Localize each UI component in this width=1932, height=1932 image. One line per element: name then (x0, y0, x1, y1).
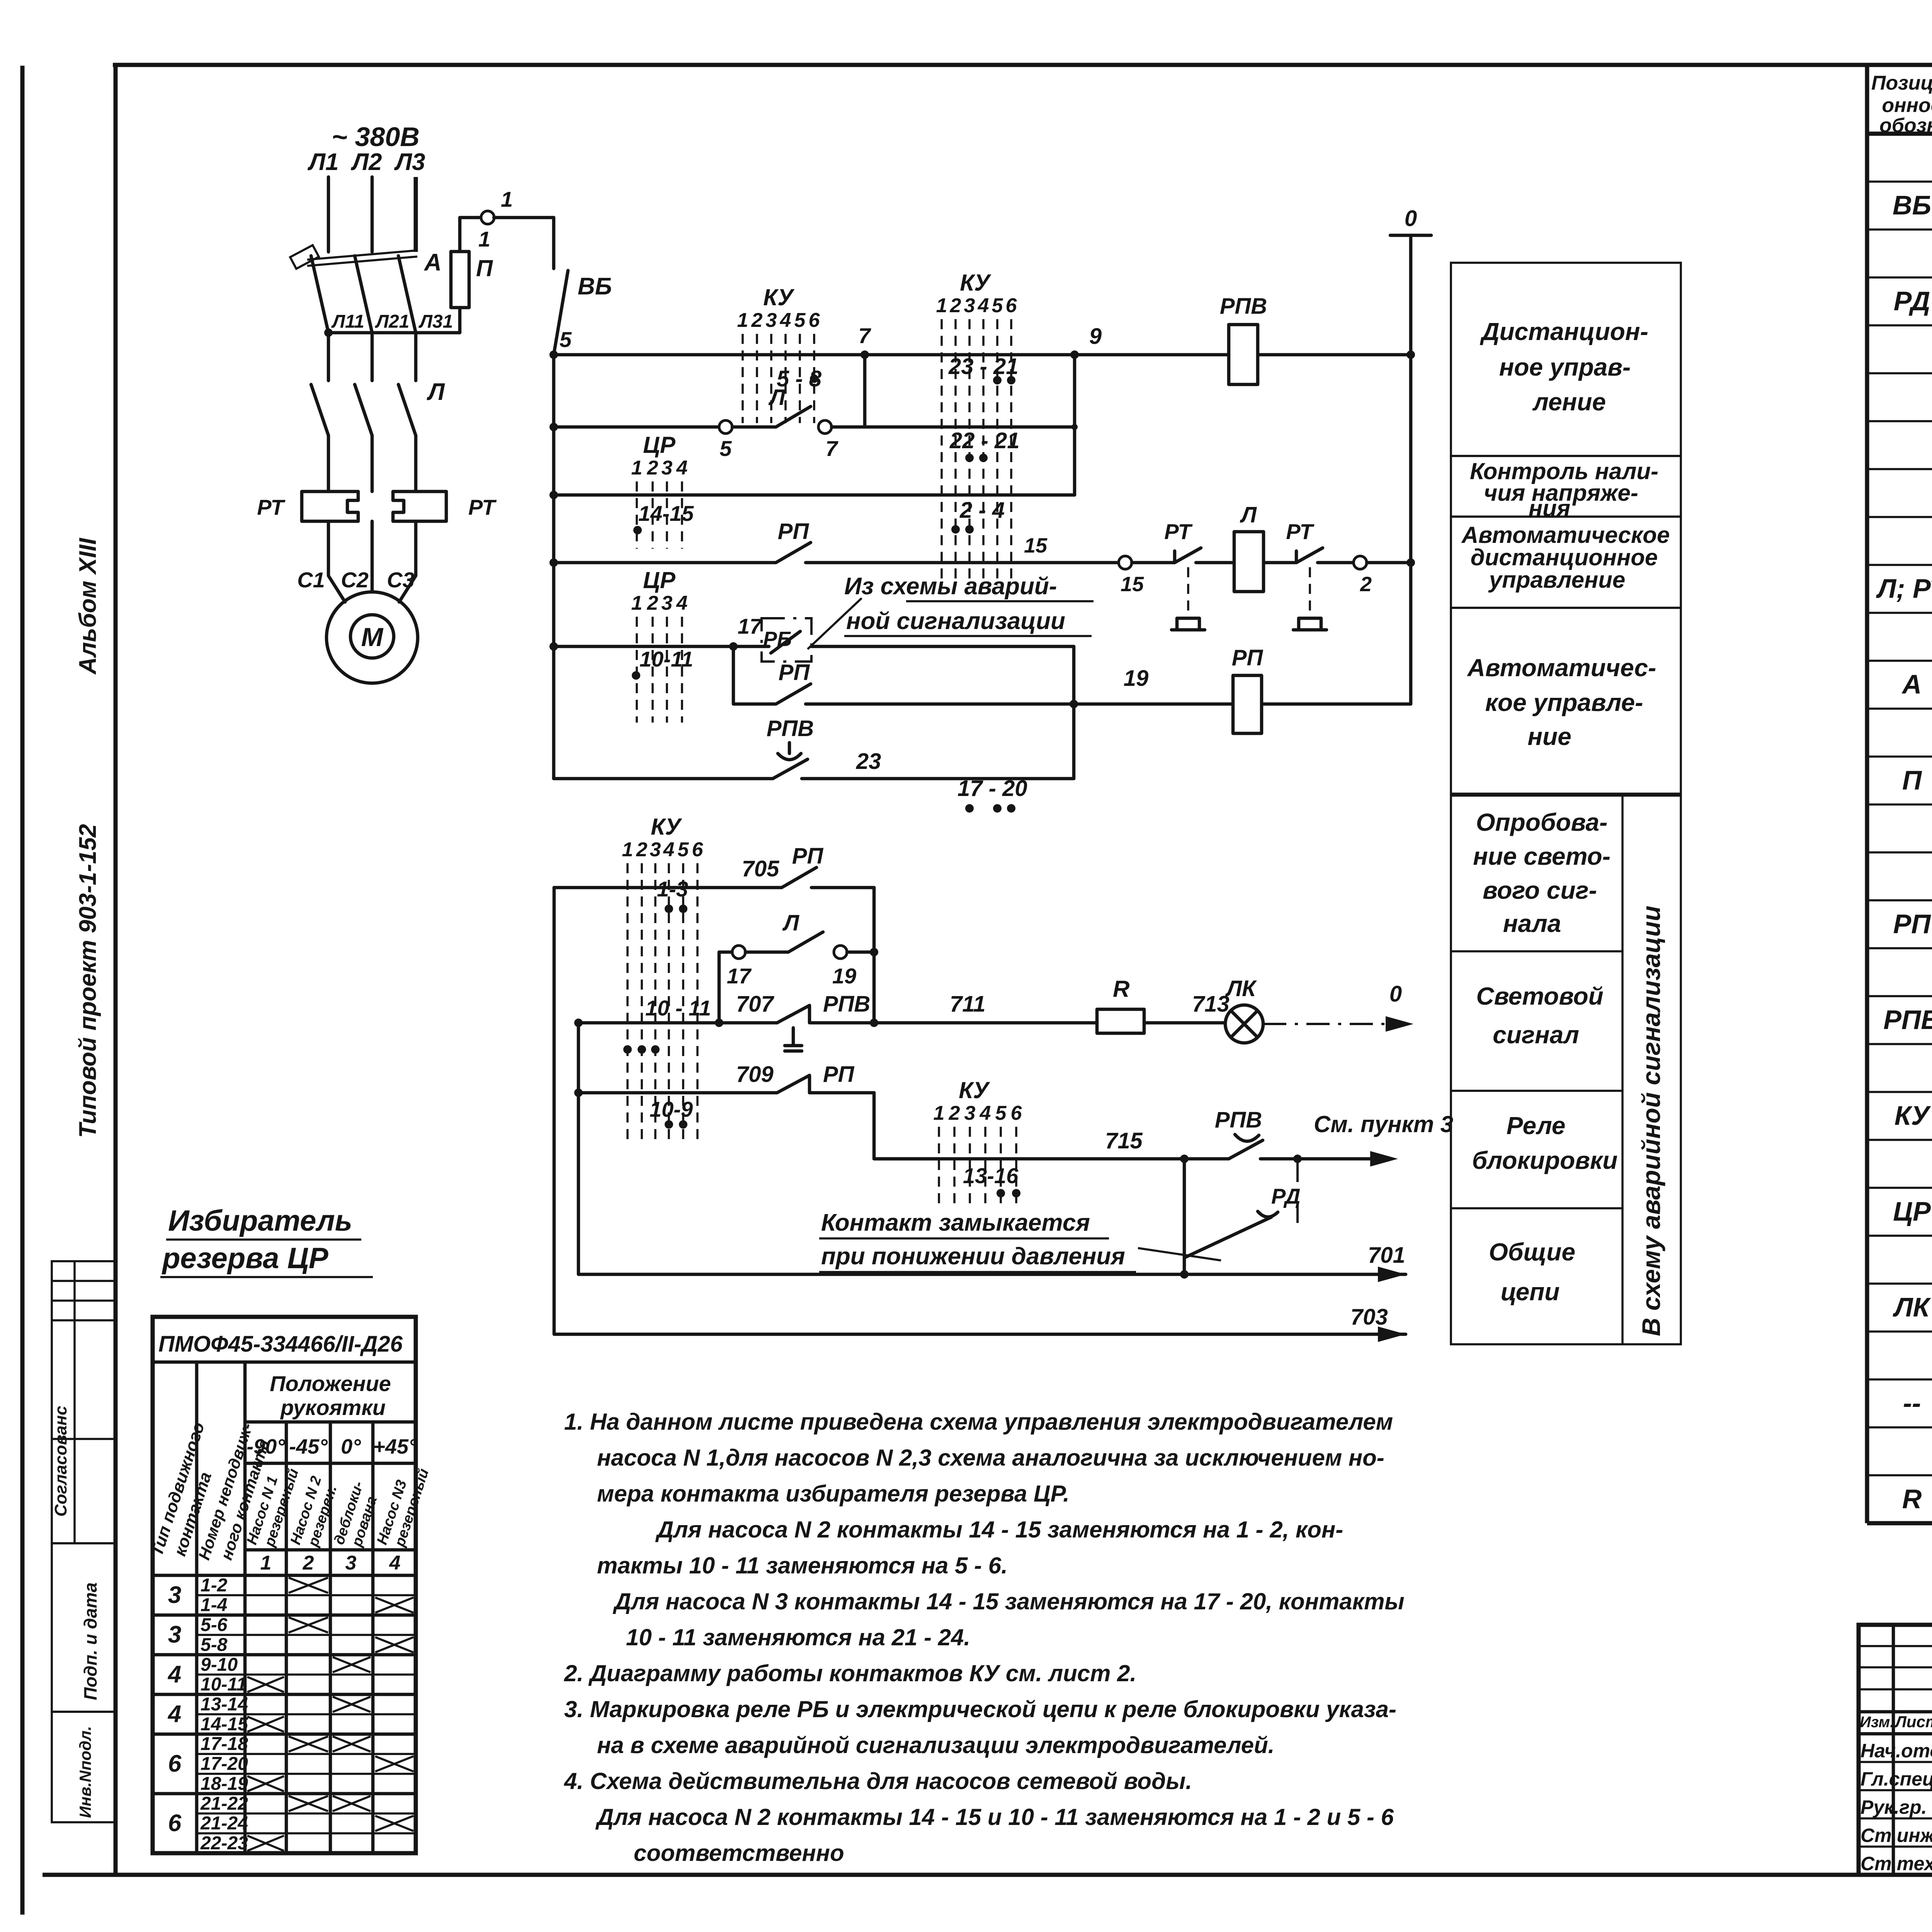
wire row709 to row715 (874, 1093, 939, 1159)
terminal 2 (1354, 556, 1367, 569)
svg-text:Л21: Л21 (375, 311, 409, 332)
margin box Инв.N подл. (52, 1712, 116, 1822)
wire 2 to bus0 (1367, 561, 1411, 565)
contact КУ 5-8 dot (810, 374, 818, 383)
wire row 23 left (552, 777, 556, 779)
wire fuse to node 1 (460, 218, 481, 252)
arrow wire 703 (1378, 1327, 1406, 1342)
svg-text:705: 705 (742, 856, 780, 881)
svg-text:нала: нала (1503, 910, 1561, 937)
svg-text:ЦР: ЦР (643, 432, 676, 458)
contact ЦР 14-15 dot (633, 526, 642, 534)
svg-text:6: 6 (809, 309, 820, 332)
svg-text:П: П (1902, 765, 1922, 795)
svg-text:1-3: 1-3 (657, 877, 688, 901)
wire Л coil to РТ right (1264, 561, 1296, 565)
svg-text:Альбом XIII: Альбом XIII (75, 537, 101, 675)
svg-text:А: А (1901, 669, 1922, 699)
svg-text:ление: ление (1532, 388, 1606, 416)
svg-text:Типовой проект 903-1-152: Типовой проект 903-1-152 (75, 824, 101, 1138)
svg-text:1: 1 (936, 294, 947, 317)
function box divider Световой сигнал (1451, 1090, 1622, 1092)
svg-text:Л1: Л1 (307, 149, 338, 175)
wire РД branch left (1183, 1159, 1186, 1274)
frame left (114, 65, 118, 1875)
arrow lamp row (1386, 1016, 1413, 1032)
terminal 19 (834, 946, 847, 959)
node V2 row Л (870, 948, 878, 956)
svg-text:ПМОФ45-334466/II-Д26: ПМОФ45-334466/II-Д26 (158, 1332, 403, 1357)
svg-text:Реле: Реле (1507, 1112, 1566, 1139)
wire node7 tie (863, 355, 867, 427)
svg-text:рукоятки: рукоятки (280, 1395, 386, 1420)
svg-text:4: 4 (389, 1552, 401, 1574)
svg-text:19: 19 (832, 964, 856, 988)
relay РБ box (762, 618, 811, 662)
svg-text:711: 711 (950, 992, 985, 1017)
wire row 705 (554, 886, 782, 889)
svg-text:соответственно: соответственно (634, 1840, 844, 1866)
svg-text:резерва ЦР: резерва ЦР (162, 1242, 328, 1275)
svg-text:7: 7 (825, 436, 838, 461)
coil РП (1233, 675, 1262, 733)
wire row Л aux left (554, 425, 719, 429)
wire phase Л1 mid (327, 333, 330, 381)
breaker A blade 2 (355, 256, 372, 333)
svg-text:1-4: 1-4 (201, 1595, 227, 1616)
svg-text:5: 5 (678, 838, 689, 861)
svg-text:3: 3 (662, 457, 673, 479)
svg-text:дистанционное: дистанционное (1471, 544, 1658, 570)
svg-text:Л; РТ: Л; РТ (1876, 573, 1932, 604)
svg-text:5: 5 (992, 294, 1003, 317)
svg-text:1: 1 (737, 309, 748, 332)
wire phase Л3 mid (414, 333, 418, 381)
arrow wire 701 (1378, 1267, 1406, 1282)
node row15 bus (549, 558, 558, 567)
svg-text:блокировки: блокировки (1472, 1146, 1618, 1174)
node row15 bus0 (1406, 558, 1415, 567)
contact КУ 23-21 dots (993, 376, 1002, 384)
svg-text:РПВ: РПВ (823, 992, 870, 1017)
svg-text:онное: онное (1882, 94, 1932, 117)
svg-text:23: 23 (856, 749, 881, 774)
wire row 23 right (802, 777, 1074, 781)
svg-text:В схему аварийной сигнализаци: В схему аварийной сигнализации (1637, 906, 1665, 1336)
thermal РТ right (393, 492, 446, 521)
contactor Л blade 1 (311, 384, 328, 435)
svg-text:4: 4 (663, 838, 675, 861)
selector КУ group B position lines (940, 319, 943, 585)
wire tie 17-23 (1072, 646, 1076, 779)
selector table outer (153, 1317, 416, 1853)
contact ЦР 10-11 lower dots (623, 1045, 632, 1054)
function box strip divider (1621, 796, 1624, 1344)
svg-text:2: 2 (303, 1552, 314, 1574)
breaker A blade 1 (311, 256, 328, 333)
svg-text:РП: РП (1893, 909, 1931, 939)
svg-text:2: 2 (751, 309, 763, 332)
svg-text:Изм.: Изм. (1860, 1714, 1894, 1731)
contact Л aux lower (745, 951, 788, 954)
svg-text:Гл.спец.: Гл.спец. (1861, 1768, 1932, 1790)
title block name rows (1859, 1761, 1932, 1763)
coil РПВ (1229, 325, 1258, 384)
terminal 7 (818, 420, 832, 434)
svg-text:13-16: 13-16 (963, 1163, 1019, 1188)
svg-text:2: 2 (950, 294, 961, 317)
wire fuse tap (328, 308, 460, 333)
node 1 terminal (481, 211, 494, 224)
svg-text:4: 4 (167, 1701, 181, 1728)
contact КУ 2-4 dots (951, 525, 960, 534)
svg-text:П: П (476, 255, 493, 281)
svg-text:Л: Л (427, 379, 445, 405)
svg-text:Положение: Положение (270, 1371, 391, 1396)
breaker A linkage (307, 250, 417, 260)
wire РП coil to bus0 (1262, 702, 1411, 706)
svg-text:1: 1 (631, 457, 643, 479)
svg-text:С3: С3 (387, 568, 415, 592)
switch ВБ stem (552, 218, 556, 269)
svg-text:0: 0 (1389, 981, 1402, 1007)
node fuse tap (324, 328, 333, 337)
svg-text:РПВ: РПВ (1215, 1107, 1262, 1133)
svg-text:РП: РП (779, 660, 810, 685)
svg-text:3: 3 (345, 1552, 357, 1574)
svg-text:ЛК: ЛК (1225, 976, 1257, 1001)
svg-text:R: R (1113, 976, 1129, 1002)
svg-text:2. Диаграмму работы контакто: 2. Диаграмму работы контактов КУ см. лис… (564, 1660, 1136, 1686)
svg-text:18-19: 18-19 (201, 1774, 248, 1794)
selector КУ group D position lines (938, 1127, 940, 1206)
svg-text:Л31: Л31 (418, 311, 453, 332)
svg-text:РП: РП (823, 1062, 855, 1087)
svg-text:Общие: Общие (1489, 1238, 1575, 1266)
svg-text:10-11: 10-11 (201, 1674, 247, 1695)
svg-text:2: 2 (647, 592, 658, 614)
svg-text:Позици-: Позици- (1871, 72, 1932, 94)
svg-text:709: 709 (736, 1062, 774, 1087)
svg-text:17-18: 17-18 (201, 1734, 248, 1754)
svg-text:1: 1 (501, 187, 513, 211)
contact РТ right NC (1295, 551, 1298, 563)
svg-text:РД: РД (1271, 1184, 1301, 1208)
selector ЦР group B position lines (636, 617, 638, 723)
svg-text:5: 5 (560, 327, 572, 352)
svg-text:ВБ: ВБ (578, 273, 612, 300)
function box lower group (1451, 796, 1681, 1344)
selector КУ group A position lines (742, 334, 744, 423)
selector table double X row 17-18 (289, 1736, 328, 1752)
svg-text:Л2: Л2 (350, 149, 382, 175)
svg-text:2: 2 (647, 457, 658, 479)
selector table title underline (153, 1361, 416, 1364)
svg-text:+45°: +45° (373, 1435, 417, 1458)
margin stamp boxes (52, 1261, 116, 1543)
svg-text:Ст.инж.: Ст.инж. (1861, 1825, 1932, 1846)
contact РП row709 NC (808, 1077, 811, 1093)
selector table double X row 21-22 (289, 1796, 328, 1811)
svg-text:0°: 0° (341, 1435, 361, 1458)
svg-text:ной сигнализации: ной сигнализации (846, 608, 1065, 634)
node row709 businner (574, 1088, 583, 1097)
node row707 V1 (715, 1019, 723, 1027)
svg-text:701: 701 (1368, 1243, 1405, 1268)
node 9 dot (1070, 350, 1079, 359)
svg-text:1: 1 (631, 592, 643, 614)
svg-text:19: 19 (1124, 666, 1149, 691)
page edge left (20, 66, 25, 1915)
svg-text:4: 4 (780, 309, 791, 332)
svg-text:6: 6 (692, 838, 704, 861)
wire ЛК to 0 arrow (1263, 1023, 1391, 1025)
svg-text:1. На данном листе приведена с: 1. На данном листе приведена схема управ… (564, 1409, 1393, 1435)
svg-text:Нач.отд: Нач.отд (1861, 1740, 1932, 1762)
svg-text:3: 3 (168, 1621, 181, 1648)
svg-text:4: 4 (167, 1661, 181, 1688)
function box Автоматическое управление (1451, 608, 1681, 794)
svg-text:2: 2 (949, 1102, 960, 1124)
svg-text:-45°: -45° (289, 1435, 328, 1458)
svg-text:6: 6 (168, 1750, 182, 1777)
svg-text:707: 707 (736, 992, 775, 1017)
svg-text:КУ: КУ (651, 814, 682, 840)
switch ВБ blade (554, 270, 568, 355)
svg-text:Опробова-: Опробова- (1476, 808, 1608, 836)
svg-text:5-6: 5-6 (201, 1615, 228, 1635)
svg-text:РП: РП (1232, 645, 1264, 670)
svg-text:Из схемы аварий-: Из схемы аварий- (844, 573, 1057, 600)
function box divider Опробование (1451, 950, 1622, 952)
svg-text:17 - 20: 17 - 20 (957, 776, 1027, 801)
wire phase Л1 lower (327, 435, 330, 492)
title block small top rows (1859, 1645, 1932, 1647)
selector КУ group C position lines (626, 863, 629, 1140)
wire V2 tie (872, 888, 876, 1023)
svg-text:КУ: КУ (959, 1077, 990, 1103)
wire phase Л3 top (414, 177, 418, 252)
svg-text:5: 5 (995, 1102, 1007, 1124)
svg-text:РП: РП (778, 519, 810, 544)
svg-text:4: 4 (978, 294, 989, 317)
svg-text:сигнал: сигнал (1493, 1021, 1579, 1049)
svg-text:1: 1 (478, 227, 490, 251)
svg-text:4: 4 (980, 1102, 991, 1124)
svg-text:15: 15 (1024, 534, 1048, 557)
wire row 15 mid (806, 561, 1119, 565)
svg-text:Для насоса N 2 контакты: Для насоса N 2 контакты 14 - 15 и 10 - 1… (595, 1804, 1394, 1830)
breaker A actuator (290, 245, 319, 269)
node row17 branch (729, 642, 738, 651)
wire R to ЛК (1144, 1021, 1225, 1025)
motor M outer circle (327, 592, 418, 683)
svg-text:РТ: РТ (257, 495, 286, 519)
function box divider Реле блокировки (1451, 1207, 1622, 1209)
wire row 707 (578, 1021, 777, 1025)
svg-text:Л: Л (1240, 502, 1257, 527)
svg-text:10 - 11: 10 - 11 (645, 996, 711, 1020)
node row1 bus0 (1406, 350, 1415, 359)
svg-text:4: 4 (676, 592, 688, 614)
svg-text:17: 17 (727, 964, 752, 988)
svg-text:Для насоса N 2 контакты 1: Для насоса N 2 контакты 14 - 15 заменяют… (655, 1517, 1343, 1543)
svg-text:ние: ние (1527, 723, 1571, 750)
svg-text:Контакт замыкается: Контакт замыкается (821, 1209, 1090, 1236)
wire РТ right to 2 (1318, 561, 1354, 565)
contact РТ left NC (1173, 551, 1177, 563)
terminal 17 (732, 946, 745, 959)
svg-text:Согласованс: Согласованс (51, 1406, 70, 1517)
svg-text:1: 1 (260, 1552, 272, 1574)
svg-text:15: 15 (1121, 573, 1144, 596)
wire phase Л1 top (327, 177, 330, 252)
node row715 РД right (1293, 1155, 1302, 1163)
svg-text:Рук.гр.: Рук.гр. (1861, 1796, 1927, 1818)
svg-text:Дистанцион-: Дистанцион- (1480, 318, 1648, 345)
svg-text:Ст.тех.: Ст.тех. (1861, 1853, 1932, 1874)
contactor Л blade 2 (355, 384, 372, 435)
svg-text:РД: РД (1894, 286, 1930, 316)
svg-text:22-23: 22-23 (200, 1833, 248, 1854)
wire row 19 (806, 702, 1233, 706)
svg-text:на в схеме аварийной сигна: на в схеме аварийной сигнализации электр… (597, 1732, 1274, 1758)
wire phase Л2 top (371, 177, 374, 252)
leader РБ slash (808, 598, 862, 649)
svg-text:ЦР: ЦР (1893, 1196, 1931, 1226)
svg-text:насоса N 1,для насосов N 2,3 с: насоса N 1,для насосов N 2,3 схема анало… (597, 1445, 1384, 1471)
wire node9 tie (1073, 355, 1077, 495)
selector table col Тип divider (195, 1362, 199, 1853)
node V2 row707 (870, 1019, 878, 1027)
contact РП row15 (776, 543, 811, 563)
svg-text:РПВ: РПВ (1220, 294, 1267, 319)
node 5 dot (549, 350, 558, 359)
svg-text:РТ: РТ (1164, 519, 1193, 544)
wire row 15 left (554, 561, 776, 565)
wire row17 to row19 tie (733, 646, 776, 704)
svg-text:ВБ: ВБ (1893, 190, 1931, 220)
margin box Подп. и дата (52, 1543, 116, 1712)
wire lower bus outer (554, 888, 1406, 1334)
svg-text:7: 7 (858, 323, 871, 348)
wire row 17 (554, 645, 769, 648)
svg-text:1: 1 (934, 1102, 945, 1124)
wire bus 0 (1409, 235, 1413, 704)
svg-text:715: 715 (1105, 1128, 1143, 1153)
svg-text:9: 9 (1089, 324, 1102, 349)
svg-text:РТ: РТ (468, 495, 497, 519)
title block outer (1859, 1625, 1932, 1875)
svg-text:КУ: КУ (763, 284, 795, 310)
wire 19 to V2 (847, 951, 874, 954)
contact РПВ row23 (773, 759, 808, 779)
wire РД branch right dashed (1296, 1159, 1299, 1223)
svg-text:Л3: Л3 (394, 149, 425, 175)
svg-text:R: R (1902, 1484, 1922, 1514)
node row707 businner (574, 1019, 583, 1027)
frame top (113, 63, 1932, 67)
svg-text:6: 6 (1011, 1102, 1022, 1124)
svg-text:РПВ: РПВ (1883, 1005, 1932, 1035)
function box Дистанционное управление (1451, 263, 1681, 456)
svg-text:5-8: 5-8 (201, 1634, 228, 1655)
svg-text:Световой: Световой (1476, 982, 1603, 1010)
svg-text:-90°: -90° (247, 1435, 285, 1458)
wire row Л aux right (832, 425, 1075, 429)
fuse П (451, 252, 469, 308)
svg-text:14-15: 14-15 (638, 501, 694, 526)
contact РП row705 (782, 867, 816, 888)
wire C1 drop (328, 521, 345, 602)
table header bottom (1867, 132, 1932, 136)
contact РБ blade (771, 631, 800, 653)
svg-text:4: 4 (676, 457, 688, 479)
arrow wire 715 (1370, 1151, 1398, 1167)
wire bus 0 top tick (1390, 234, 1431, 237)
svg-text:17: 17 (738, 614, 763, 638)
svg-text:Подп. и дата: Подп. и дата (80, 1582, 100, 1700)
title block header row (1859, 1710, 1932, 1714)
node row2 bus (549, 423, 558, 431)
terminal 5 (719, 420, 732, 434)
wire row 715 (874, 1157, 1229, 1161)
wire phase Л2 mid (371, 333, 374, 381)
svg-text:~ 380В: ~ 380В (332, 122, 420, 152)
wire phase Л3 lower (414, 435, 418, 492)
contact РД (1184, 1217, 1271, 1258)
svg-text:См. пункт 3: См. пункт 3 (1314, 1111, 1453, 1137)
svg-text:ЛК: ЛК (1892, 1292, 1931, 1322)
svg-text:3. Маркировка реле РБ и э: 3. Маркировка реле РБ и электрической це… (564, 1696, 1396, 1722)
wire phase Л2 lower (371, 435, 374, 492)
function box Автоматическое дистанционное управление (1451, 517, 1681, 608)
selector table angle col dividers (285, 1422, 288, 1853)
svg-text:кое управле-: кое управле- (1485, 689, 1643, 716)
contact РПВ row707 NC delay (808, 1007, 811, 1023)
svg-text:6: 6 (168, 1810, 182, 1837)
svg-text:6: 6 (1006, 294, 1017, 317)
svg-text:2: 2 (636, 838, 648, 861)
wire C3 drop (399, 521, 416, 602)
breaker A blade 3 (398, 256, 416, 333)
svg-text:С2: С2 (341, 568, 369, 592)
svg-text:5: 5 (794, 309, 806, 332)
node row715 РД left (1180, 1155, 1189, 1163)
lamp ЛК (1225, 1005, 1263, 1043)
coil Л (1234, 532, 1264, 592)
svg-text:2: 2 (1360, 573, 1372, 596)
svg-text:Избиратель: Избиратель (168, 1204, 352, 1237)
svg-text:обозн.: обозн. (1879, 114, 1932, 137)
wire 15 to РТ (1132, 561, 1175, 565)
svg-text:Л11: Л11 (331, 311, 364, 332)
svg-text:713: 713 (1192, 992, 1230, 1017)
wire row 709 (578, 1091, 777, 1095)
svg-text:вого сиг-: вого сиг- (1483, 876, 1597, 904)
svg-text:3: 3 (964, 294, 975, 317)
svg-text:703: 703 (1350, 1304, 1388, 1330)
contactor Л blade 3 (398, 384, 416, 435)
svg-text:17-20: 17-20 (201, 1754, 248, 1774)
svg-text:23 - 21: 23 - 21 (948, 354, 1019, 379)
motor M inner circle (350, 615, 394, 658)
terminal 15 (1119, 556, 1132, 569)
svg-text:5: 5 (719, 436, 732, 461)
svg-text:10-9: 10-9 (650, 1097, 693, 1121)
svg-text:А: А (423, 249, 442, 276)
svg-text:1-2: 1-2 (201, 1575, 228, 1595)
